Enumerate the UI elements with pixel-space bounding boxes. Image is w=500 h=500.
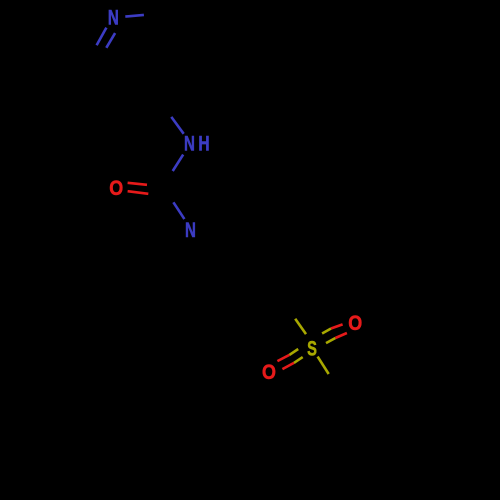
bond CH3-S (S half, yellow) <box>295 319 306 334</box>
double bond S=O upper-right, upper line (O half, red) <box>331 324 343 328</box>
double bond N1=C6 pyridine inner line (N half, blue) <box>106 33 115 48</box>
svg-text:N: N <box>108 5 119 29</box>
bond C4-N(H) amide (N half, blue) <box>171 117 183 134</box>
svg-text:O: O <box>348 311 362 335</box>
double bond C=O carbonyl upper line (O half, red) <box>128 183 147 185</box>
double bond S=O lower-left, upper line (S half, yellow) <box>289 349 298 355</box>
svg-text:N: N <box>185 217 196 241</box>
double bond S=O upper-right, lower line (O half, red) <box>335 333 347 338</box>
double bond N1=C6 pyridine outer line (N half, blue) <box>97 28 107 46</box>
double bond S=O lower-left, lower line (O half, red) <box>282 363 294 369</box>
bond N(H)-C carbonyl (N half, blue) <box>173 155 184 171</box>
bond C carbonyl-N2 (N half, blue) <box>173 202 184 219</box>
svg-text:O: O <box>109 177 123 201</box>
double bond S=O upper-right, lower line (S half, yellow) <box>326 338 335 343</box>
double bond C=O carbonyl lower line (O half, red) <box>128 191 149 194</box>
double bond S=O lower-left, lower line (S half, yellow) <box>294 357 303 363</box>
svg-text:N: N <box>184 131 195 155</box>
double bond S=O lower-left, upper line (O half, red) <box>277 355 289 361</box>
bond S-C aryl (S half, yellow) <box>318 357 329 374</box>
double bond S=O upper-right, upper line (S half, yellow) <box>322 329 331 334</box>
svg-text:O: O <box>262 361 276 385</box>
bond N1-C2 pyridine (N half, blue) <box>125 15 144 17</box>
svg-text:H: H <box>198 131 209 155</box>
svg-text:S: S <box>307 335 317 360</box>
